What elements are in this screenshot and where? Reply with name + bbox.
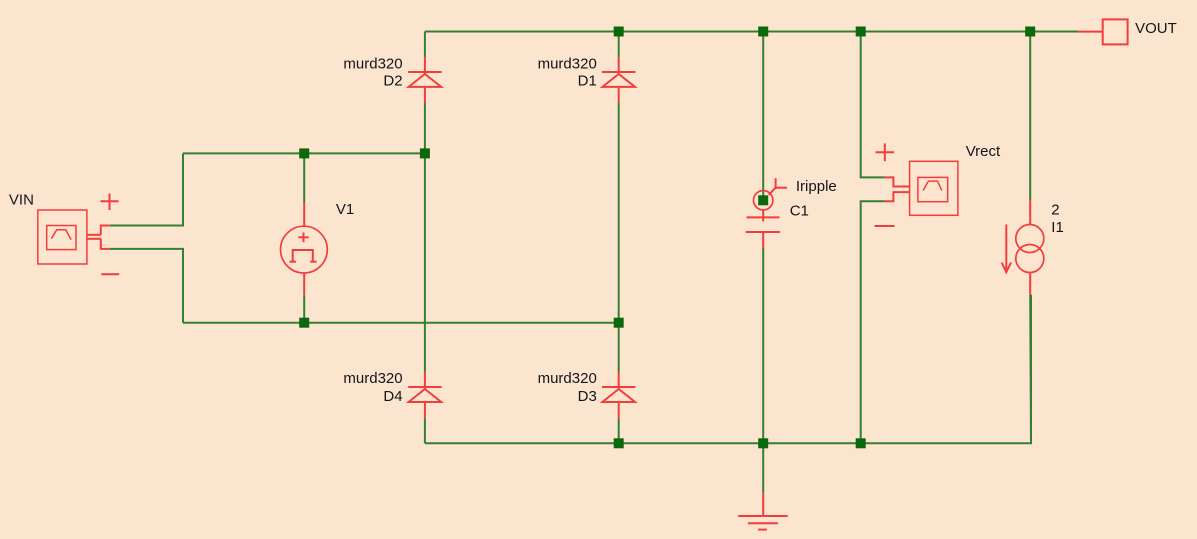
- wire C1 to bottom rail: [762, 248, 764, 443]
- svg-text:I1: I1: [1051, 219, 1064, 236]
- junction node A at V1 top: [299, 148, 309, 158]
- capacitor C1: [746, 210, 780, 248]
- junction top rail at Vrect: [856, 27, 866, 37]
- svg-text:VOUT: VOUT: [1135, 20, 1177, 37]
- junction inside Iripple probe: [758, 195, 768, 205]
- diode D1: [602, 57, 635, 103]
- svg-text:V1: V1: [336, 201, 354, 218]
- junction top rail at C1: [758, 27, 768, 37]
- junction top rail at I1: [1025, 27, 1035, 37]
- port VOUT: [1103, 19, 1128, 44]
- junction bottom rail at D3: [614, 438, 624, 448]
- svg-text:D2: D2: [383, 73, 402, 90]
- wire D1 to D3 vertical: [618, 103, 620, 372]
- wire VIN plus to node A: [110, 153, 183, 225]
- probe Vrect: [875, 143, 958, 226]
- junction top rail at D1: [614, 27, 624, 37]
- wire V1 bottom: [303, 295, 305, 323]
- wire I1 top: [1029, 32, 1031, 201]
- diode D4: [408, 372, 441, 418]
- wire D2-D4 column vertical: [424, 32, 426, 58]
- wire to VOUT port: [1078, 31, 1103, 33]
- svg-text:D1: D1: [578, 73, 597, 90]
- junction bottom rail at Vrect: [856, 438, 866, 448]
- diode D2: [408, 57, 441, 103]
- svg-text:VIN: VIN: [9, 191, 34, 208]
- wire bottom rail: [425, 295, 1031, 444]
- svg-text:murd320: murd320: [538, 55, 597, 72]
- wire D4 to bottom rail: [424, 418, 426, 443]
- wire top rail: [425, 31, 1078, 33]
- svg-text:D4: D4: [383, 388, 402, 405]
- svg-text:murd320: murd320: [343, 55, 402, 72]
- wire D1 column top: [618, 32, 620, 58]
- voltage source V1: [281, 203, 328, 295]
- wire D2 to D4 vertical: [424, 103, 426, 372]
- junction bottom rail at ground: [758, 438, 768, 448]
- wire I1 bottom: [1029, 295, 1032, 444]
- svg-text:Vrect: Vrect: [966, 143, 1001, 160]
- wire Vrect minus branch: [861, 201, 885, 443]
- svg-text:D3: D3: [578, 388, 597, 405]
- svg-text:C1: C1: [790, 203, 809, 220]
- wire Vrect plus branch: [861, 32, 885, 178]
- svg-text:murd320: murd320: [538, 370, 597, 387]
- wire V1 top: [303, 153, 305, 203]
- wire mid horizontal node B: [183, 322, 619, 324]
- svg-text:murd320: murd320: [343, 370, 402, 387]
- wire C1 column top: [762, 32, 764, 198]
- ground: [738, 493, 788, 530]
- current source I1: [1002, 200, 1044, 295]
- wire ground stub: [762, 443, 764, 493]
- wire mid-left horizontal node A: [183, 152, 425, 154]
- diode D3: [602, 372, 635, 418]
- svg-text:2: 2: [1051, 201, 1059, 218]
- wire D3 to bottom rail: [618, 418, 620, 443]
- junction node B at V1 bottom: [299, 318, 309, 328]
- svg-text:Iripple: Iripple: [796, 178, 837, 195]
- junction node A at D2 column: [420, 148, 430, 158]
- current probe Iripple: [754, 178, 788, 210]
- probe VIN: [38, 194, 119, 275]
- wire VIN minus down: [110, 249, 183, 323]
- junction node B at D1 column: [614, 318, 624, 328]
